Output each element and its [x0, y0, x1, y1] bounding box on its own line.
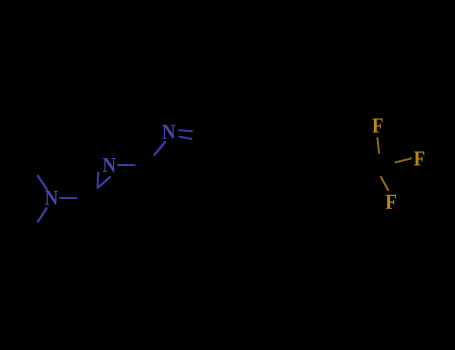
wire N1=C6 double bond top line	[179, 129, 192, 132]
node N dimethylamino	[45, 191, 58, 205]
node F bottom of CF3	[386, 195, 396, 209]
wire bond CF3 carbon to F bottom	[381, 177, 388, 190]
wire bond N to formamidine CH	[60, 197, 76, 199]
node F right of CF3	[414, 151, 424, 165]
wire bond amidine N to pyridine C2	[118, 164, 135, 166]
wire bond CF3 carbon to F right	[396, 159, 412, 163]
node F top of CF3	[372, 118, 382, 132]
wire N1=C6 double bond bottom line	[180, 137, 192, 139]
wire bond F top to CF3 carbon	[378, 138, 380, 153]
wire C=N double bond main line	[98, 177, 110, 188]
node N amidine	[103, 158, 116, 172]
wire C=N double bond inner line	[96, 173, 99, 188]
wire methyl bond CH3 upper to N (dimethylamino)	[38, 176, 47, 190]
wire bond C2 to pyridine N1	[155, 142, 166, 155]
node N pyridine	[162, 125, 175, 139]
wire methyl bond CH3 lower to N	[38, 209, 47, 222]
